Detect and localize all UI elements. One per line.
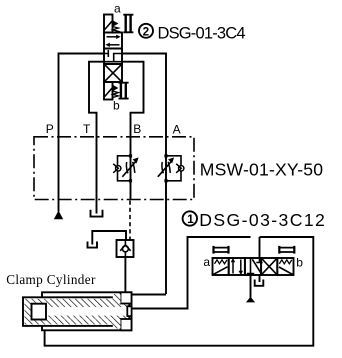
solenoid box b: [277, 258, 293, 275]
center position box: [245, 258, 261, 275]
pressure source triangle: [246, 297, 255, 303]
check valve through line: [124, 240, 126, 257]
X crossed lines: [105, 65, 122, 82]
B check bypass loop: [118, 156, 131, 181]
check valve ball: [122, 246, 128, 252]
spring seat II (a): [123, 15, 133, 33]
center: blocked stub top right: [256, 258, 262, 263]
arrow up: [232, 261, 234, 274]
B check ball: [116, 166, 121, 171]
wire A: valve right port to manifold A: [122, 54, 166, 138]
A check seat: [176, 164, 181, 173]
B throttle arrow: [122, 160, 137, 177]
line check valve to cylinder: [124, 257, 126, 292]
A line in/below manifold: [165, 137, 167, 294]
B line through manifold: [130, 137, 132, 200]
label 1 circled: [183, 211, 197, 225]
svg-text:b: b: [113, 98, 120, 112]
rod end cap: [127, 306, 131, 316]
check valve box: [117, 240, 134, 257]
tank symbol (T): [91, 210, 103, 217]
P stub to source: [250, 275, 252, 298]
solenoid a arrow: [113, 20, 119, 26]
svg-text:a: a: [114, 1, 121, 15]
svg-text:DSG-01-3C4: DSG-01-3C4: [158, 24, 246, 42]
A throttle arcs: [162, 162, 170, 174]
manifold boundary (chain line): [34, 137, 194, 200]
svg-text:b: b: [296, 256, 303, 270]
X crossed lines: [262, 259, 277, 275]
P line through manifold: [58, 137, 60, 212]
wire A to boss: [132, 294, 167, 296]
spring a (zigzag): [113, 27, 119, 34]
center: blocked P stub: [104, 50, 108, 57]
bottom-right boss: [121, 319, 132, 330]
A check bypass loop: [166, 156, 181, 181]
wire B: valve right lower port, jog, to manifold B: [122, 62, 144, 137]
spring seat II (right): [279, 248, 295, 252]
center: P through line w/ bottom bar: [247, 258, 254, 275]
svg-text:Clamp Cylinder: Clamp Cylinder: [6, 272, 96, 287]
A throttle arrow: [158, 160, 173, 177]
wire rod side to DSG-03: [132, 237, 251, 309]
top-right port boss: [121, 292, 132, 303]
svg-text:DSG-03-3C12: DSG-03-3C12: [199, 210, 324, 230]
X position box: [261, 258, 277, 275]
position box 1: [104, 33, 122, 49]
spring seat II (b): [119, 83, 129, 99]
T stub up: [259, 237, 261, 258]
boss-left hatch lower: [113, 319, 121, 329]
A junction dots: [164, 154, 167, 157]
boss-left hatch: [113, 294, 121, 304]
solenoid b spring zigzag: [279, 260, 292, 264]
rod upper wall: [46, 304, 127, 307]
check valve seat: [120, 245, 130, 251]
center: diagonal: [252, 259, 261, 274]
box1 arrow left: [109, 44, 120, 46]
solenoid box a: [213, 258, 229, 275]
center position box: [104, 49, 122, 65]
T stub down to tank: [259, 275, 261, 282]
position box 1 (arrows): [229, 258, 245, 275]
top wall hatch: [32, 299, 128, 304]
solenoid b slash: [105, 88, 112, 96]
wire cap side bottom loop: [45, 237, 314, 346]
solenoid a slash: [105, 21, 112, 29]
svg-text:1: 1: [187, 213, 194, 226]
solenoid b slash: [279, 267, 293, 275]
svg-text:a: a: [203, 255, 210, 269]
solenoid box a: [104, 15, 113, 33]
svg-text:A: A: [173, 122, 181, 136]
suction line to check valve: [92, 231, 126, 245]
tank symbol: [255, 280, 264, 286]
box1 arrow right: [107, 36, 118, 38]
left cap hatch: [25, 299, 32, 325]
solenoid box b: [104, 82, 113, 100]
A check ball: [179, 166, 184, 171]
center: A port path down: [114, 54, 122, 62]
label 2 circled: [139, 24, 153, 38]
spring b (zigzag): [113, 91, 119, 98]
T line through manifold: [96, 137, 98, 214]
bottom wall hatch: [32, 319, 128, 324]
cylinder tube: [23, 297, 129, 326]
B throttle arcs: [126, 162, 134, 174]
spring seat II (left): [213, 248, 229, 252]
solenoid a spring zigzag: [215, 260, 228, 264]
suction tank symbol: [88, 242, 98, 248]
svg-text:MSW-01-XY-50: MSW-01-XY-50: [200, 160, 323, 180]
svg-text:B: B: [133, 122, 141, 136]
center: T-B through line: [104, 61, 122, 63]
svg-text:P: P: [46, 122, 54, 136]
piston: [32, 304, 47, 320]
solenoid b arrow: [113, 85, 119, 91]
wire P: valve left port to manifold P: [59, 54, 105, 138]
svg-text:T: T: [83, 122, 91, 136]
B check seat: [113, 164, 118, 173]
arrow down: [240, 260, 242, 273]
rod lower wall: [46, 316, 127, 319]
cylinder housing: [42, 292, 132, 330]
solenoid a slash: [214, 267, 228, 275]
svg-text:2: 2: [143, 25, 150, 38]
B junction dots: [129, 154, 132, 157]
X position box: [104, 64, 122, 82]
pressure source triangle (P): [54, 211, 63, 220]
wire T: valve left lower port, jog, to manifold T: [89, 62, 104, 137]
dashed drain line from B: [129, 201, 131, 241]
